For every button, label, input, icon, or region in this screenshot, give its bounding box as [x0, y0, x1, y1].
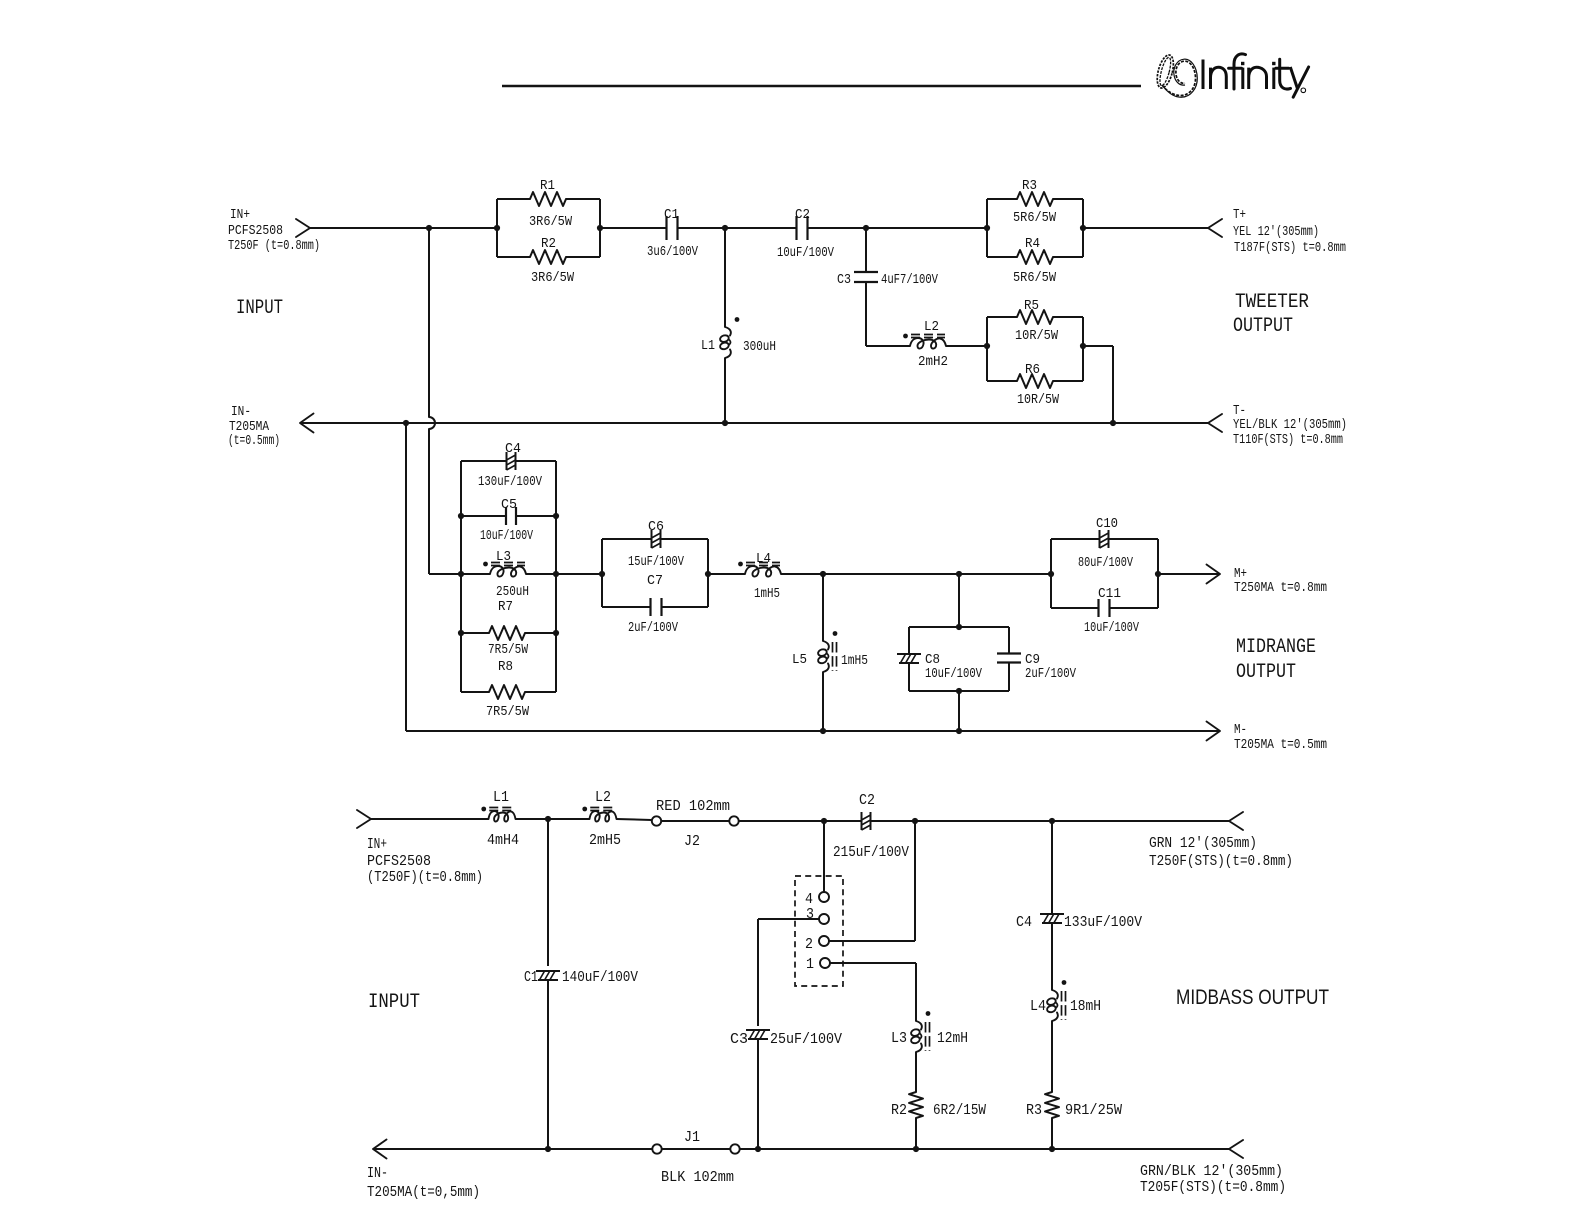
wire L2 to R5R6: [946, 345, 987, 347]
wire IN+ to R1R2: [310, 227, 497, 229]
svg-text:140uF/100V: 140uF/100V: [562, 969, 638, 986]
capacitor C7: [602, 606, 651, 608]
wire L1 to L2: [516, 818, 590, 820]
wire C1 to L1 node: [678, 227, 726, 229]
svg-text:T+: T+: [1233, 207, 1246, 223]
svg-text:80uF/100V: 80uF/100V: [1078, 555, 1133, 571]
svg-text:L4: L4: [756, 551, 771, 567]
wire to T+: [1083, 227, 1208, 229]
node L5 tap: [820, 571, 826, 577]
header pin 2: [819, 936, 829, 946]
wire C8C9 to M- rail: [958, 691, 960, 731]
header pin 3: [819, 914, 829, 924]
terminal T-: [1208, 414, 1222, 432]
svg-text:T187F(STS) t=0.8mm: T187F(STS) t=0.8mm: [1234, 240, 1346, 256]
inductor L3: [461, 573, 490, 575]
capacitor C2 midbass: [861, 812, 863, 830]
node C10C11 left: [1048, 571, 1054, 577]
svg-text:2: 2: [805, 936, 813, 953]
svg-text:R6: R6: [1025, 362, 1040, 378]
svg-text:3R6/5W: 3R6/5W: [529, 214, 572, 230]
svg-text:133uF/100V: 133uF/100V: [1064, 914, 1142, 931]
svg-text:2uF/100V: 2uF/100V: [628, 620, 678, 636]
inductor L5: [823, 641, 829, 650]
node C1 bottom: [545, 1146, 551, 1152]
node R1R2 left: [494, 225, 500, 231]
svg-text:R2: R2: [891, 1102, 907, 1119]
wire box1 to box2: [556, 573, 602, 575]
resistor R7: [461, 632, 489, 634]
svg-text:J2: J2: [684, 833, 700, 850]
svg-text:250uH: 250uH: [496, 584, 529, 600]
svg-text:2mH2: 2mH2: [918, 354, 948, 370]
svg-text:IN-: IN-: [367, 1165, 388, 1182]
svg-text:R4: R4: [1025, 236, 1040, 252]
svg-text:C4: C4: [1016, 914, 1032, 931]
capacitor C11: [1051, 607, 1099, 609]
svg-text:T205MA(t=0,5mm): T205MA(t=0,5mm): [367, 1184, 480, 1201]
svg-text:GRN 12'(305mm): GRN 12'(305mm): [1149, 835, 1257, 852]
capacitor C9: [1008, 627, 1010, 654]
resistor box R1/R2: [496, 199, 498, 257]
node C4 tap: [1049, 818, 1055, 824]
node R3R4 right: [1080, 225, 1086, 231]
svg-text:T250F (t=0.8mm): T250F (t=0.8mm): [228, 238, 320, 254]
connector J2 pin: [652, 816, 661, 825]
wire IN+ to L1: [371, 818, 489, 820]
svg-text:R8: R8: [498, 659, 513, 675]
node pin2 riser: [912, 818, 918, 824]
capacitor C3 branch: [865, 228, 867, 272]
svg-text:M-: M-: [1234, 722, 1247, 738]
wire R5R6 to T- drop: [1083, 345, 1113, 347]
Infinity logo swirl: [1154, 53, 1197, 97]
svg-text:10uF/100V: 10uF/100V: [777, 245, 834, 261]
svg-text:IN+: IN+: [230, 207, 250, 223]
parallel box C6/C7: [601, 539, 603, 607]
svg-text:3R6/5W: 3R6/5W: [531, 270, 574, 286]
svg-text:INPUT: INPUT: [368, 991, 420, 1014]
wire R3 to rail: [1051, 1118, 1053, 1149]
svg-text:4mH4: 4mH4: [487, 832, 519, 849]
svg-text:R7: R7: [498, 599, 513, 615]
wire J1 BLK: [662, 1148, 731, 1150]
svg-text:T205F(STS)(t=0.8mm): T205F(STS)(t=0.8mm): [1140, 1179, 1286, 1196]
svg-text:(t=0.5mm): (t=0.5mm): [228, 433, 280, 449]
terminal M- arrow: [1207, 722, 1221, 741]
wire pin2 riser: [829, 940, 915, 942]
svg-text:10uF/100V: 10uF/100V: [480, 528, 533, 544]
wire IN- to M- rail: [405, 423, 407, 731]
capacitor C8: [908, 627, 910, 654]
svg-text:C1: C1: [664, 207, 679, 223]
Infinity wordmark: [1203, 54, 1309, 97]
wire box2 to L4: [708, 573, 745, 575]
node C10C11 right: [1155, 571, 1161, 577]
capacitor C1 midbass: [536, 970, 560, 972]
node M- C8C9: [956, 728, 962, 734]
svg-text:R3: R3: [1022, 178, 1037, 194]
wire bottom rail right: [740, 1148, 1230, 1150]
inductor L5 branch: [822, 574, 824, 641]
svg-text:YEL 12'(305mm): YEL 12'(305mm): [1233, 224, 1319, 240]
wire pin1 drop: [830, 962, 916, 964]
svg-text:5R6/5W: 5R6/5W: [1013, 210, 1056, 226]
svg-text:3u6/100V: 3u6/100V: [647, 244, 698, 260]
wire R1R2 to C1: [600, 227, 667, 229]
svg-text:L1: L1: [493, 789, 509, 806]
terminal IN- arrow: [300, 414, 314, 433]
svg-text:R1: R1: [540, 178, 555, 194]
svg-text:C5: C5: [501, 497, 517, 513]
node C8C9 tap: [956, 571, 962, 577]
svg-text:1mH5: 1mH5: [841, 653, 868, 669]
svg-text:1mH5: 1mH5: [754, 586, 780, 602]
parallel box C8/C9: [958, 574, 960, 627]
terminal IN+ midbass: [357, 810, 371, 828]
svg-text:BLK 102mm: BLK 102mm: [661, 1169, 734, 1186]
node C3 bottom: [755, 1146, 761, 1152]
svg-text:25uF/100V: 25uF/100V: [770, 1031, 842, 1048]
node box2 right: [705, 571, 711, 577]
svg-text:L1: L1: [701, 338, 715, 354]
header pin 4: [819, 892, 829, 902]
inductor L4 midbass: [1052, 990, 1058, 999]
wire L4 to R3: [1051, 1021, 1053, 1092]
wire to C2: [725, 227, 797, 229]
terminal GRN: [1229, 812, 1243, 830]
wire IN- rail: [300, 422, 1208, 424]
header rule: [502, 85, 1141, 88]
capacitor C4 midbass branch: [1051, 821, 1053, 914]
svg-text:INPUT: INPUT: [236, 297, 283, 320]
svg-text:2mH5: 2mH5: [589, 832, 621, 849]
resistor R1: [530, 192, 566, 206]
wire C3 to rail: [757, 1039, 759, 1149]
svg-text:10uF/100V: 10uF/100V: [1084, 620, 1139, 636]
resistor R2: [530, 250, 566, 264]
svg-text:15uF/100V: 15uF/100V: [628, 554, 684, 570]
svg-text:C2: C2: [795, 207, 810, 223]
node R1R2 right: [597, 225, 603, 231]
resistor R6: [1017, 374, 1053, 388]
svg-text:L2: L2: [595, 789, 611, 806]
resistor R8: [461, 691, 489, 693]
connector J1 pin: [652, 1144, 661, 1153]
svg-text:2uF/100V: 2uF/100V: [1025, 666, 1076, 682]
svg-text:18mH: 18mH: [1070, 998, 1101, 1015]
svg-text:C3: C3: [837, 272, 851, 288]
svg-text:7R5/5W: 7R5/5W: [486, 704, 529, 720]
node C8C9 bottom: [956, 688, 962, 694]
capacitor C5: [461, 515, 506, 517]
parallel box C10/C11: [1050, 539, 1052, 608]
terminal M+ arrow: [1207, 565, 1221, 584]
capacitor C3: [854, 271, 878, 273]
node R5R6 right: [1080, 343, 1086, 349]
node box2 left: [599, 571, 605, 577]
wire C2 to C3 node: [808, 227, 867, 229]
capacitor C4: [461, 460, 507, 462]
terminal IN+ (tweeter/mid input): [296, 219, 310, 237]
svg-text:J1: J1: [684, 1129, 700, 1146]
svg-text:4uF7/100V: 4uF7/100V: [881, 272, 938, 288]
inductor L4: [745, 566, 781, 577]
header connector dashed box: [795, 876, 843, 986]
svg-text:10uF/100V: 10uF/100V: [925, 666, 982, 682]
wire pin3 to C3: [758, 918, 819, 920]
svg-text:3: 3: [806, 906, 814, 923]
node L1 tap: [722, 225, 728, 231]
nodes parallel box left: [458, 513, 464, 519]
header pin 1: [820, 958, 830, 968]
svg-text:C4: C4: [505, 441, 521, 457]
svg-text:300uH: 300uH: [743, 339, 776, 355]
terminal GRN/BLK: [1229, 1140, 1243, 1158]
connector J1 pin 2: [730, 1144, 739, 1153]
wire pin4 drop: [823, 821, 825, 892]
svg-text:C1: C1: [524, 969, 538, 986]
resistor R2 midbass: [909, 1092, 923, 1118]
svg-text:OUTPUT: OUTPUT: [1236, 661, 1296, 684]
svg-text:IN+: IN+: [367, 836, 387, 853]
node C3 tap: [863, 225, 869, 231]
resistor R3: [1017, 192, 1053, 206]
svg-text:C11: C11: [1098, 586, 1121, 602]
svg-text:MIDBASS OUTPUT: MIDBASS OUTPUT: [1176, 986, 1329, 1009]
node C1 tap: [545, 816, 551, 822]
node R3 bottom: [1049, 1146, 1055, 1152]
node C8C9 top: [956, 624, 962, 630]
svg-text:T205MA t=0.5mm: T205MA t=0.5mm: [1234, 737, 1327, 753]
terminal T+: [1208, 219, 1222, 237]
svg-text:C6: C6: [648, 519, 664, 535]
wire input drop to midrange feed (with hop): [428, 228, 430, 417]
capacitor C2: [795, 216, 797, 240]
svg-text:RED 102mm: RED 102mm: [656, 798, 730, 815]
svg-text:MIDRANGE: MIDRANGE: [1236, 636, 1316, 659]
wire J2 RED: [661, 820, 730, 822]
node IN- drop: [403, 420, 409, 426]
svg-text:YEL/BLK 12'(305mm): YEL/BLK 12'(305mm): [1233, 417, 1347, 433]
svg-text:C3: C3: [730, 1031, 748, 1048]
node input junction: [426, 225, 432, 231]
svg-text:7R5/5W: 7R5/5W: [488, 642, 528, 658]
wire bottom rail left: [373, 1148, 652, 1150]
inductor L3 midbass: [916, 1021, 922, 1030]
connector J2 pin 2: [729, 816, 738, 825]
wire to M+: [1158, 573, 1220, 575]
svg-text:C7: C7: [647, 573, 663, 589]
wire to R3R4: [866, 227, 987, 229]
nodes parallel box right: [553, 513, 559, 519]
inductor L1 branch: [724, 228, 726, 327]
svg-text:9R1/25W: 9R1/25W: [1065, 1102, 1122, 1119]
capacitor C1: [665, 216, 667, 240]
svg-text:GRN/BLK 12'(305mm): GRN/BLK 12'(305mm): [1140, 1163, 1283, 1180]
node R3R4 left: [984, 225, 990, 231]
node header pin4 tap: [821, 818, 827, 824]
wire C2 to GRN: [871, 820, 1230, 822]
svg-text:L5: L5: [792, 652, 807, 668]
svg-text:10R/5W: 10R/5W: [1015, 328, 1058, 344]
capacitor C1 midbass branch: [547, 819, 549, 966]
svg-text:10R/5W: 10R/5W: [1017, 392, 1059, 408]
svg-text:(T250F)(t=0.8mm): (T250F)(t=0.8mm): [367, 869, 483, 886]
terminal IN- midbass arrow: [373, 1140, 387, 1159]
svg-text:L4: L4: [1030, 998, 1046, 1015]
svg-text:OUTPUT: OUTPUT: [1233, 315, 1293, 338]
resistor box R5/R6: [986, 317, 988, 381]
svg-text:T110F(STS) t=0.8mm: T110F(STS) t=0.8mm: [1233, 432, 1343, 448]
svg-text:PCFS2508: PCFS2508: [228, 223, 283, 239]
resistor box R3/R4: [986, 199, 988, 257]
svg-text:215uF/100V: 215uF/100V: [833, 844, 909, 861]
resistor R3 midbass: [1045, 1092, 1059, 1118]
svg-text:R5: R5: [1024, 298, 1039, 314]
svg-text:L3: L3: [891, 1030, 907, 1047]
node R2 bottom: [913, 1146, 919, 1152]
capacitor C6: [602, 538, 652, 540]
svg-text:T250F(STS)(t=0.8mm): T250F(STS)(t=0.8mm): [1149, 853, 1293, 870]
node M- L5: [820, 728, 826, 734]
node T- drop: [1110, 420, 1116, 426]
svg-text:T250MA t=0.8mm: T250MA t=0.8mm: [1234, 580, 1327, 596]
capacitor C3 midbass: [746, 1029, 770, 1031]
svg-text:C2: C2: [859, 792, 875, 809]
inductor L2: [910, 338, 946, 349]
capacitor C4 midbass: [1040, 913, 1064, 915]
svg-text:5R6/5W: 5R6/5W: [1013, 270, 1056, 286]
wire L2 to J2: [617, 819, 652, 820]
capacitor C10: [1051, 538, 1100, 540]
inductor L1 midbass: [489, 811, 516, 822]
svg-text:PCFS2508: PCFS2508: [367, 853, 431, 870]
wire L4 to C10C11: [781, 573, 1051, 575]
svg-text:C10: C10: [1096, 516, 1118, 532]
svg-text:L3: L3: [496, 549, 511, 565]
svg-text:R2: R2: [541, 236, 556, 252]
svg-text:L2: L2: [924, 319, 939, 335]
parallel box C4/C5/L3/R7/R8: [460, 461, 462, 692]
svg-text:IN-: IN-: [231, 404, 251, 420]
svg-text:6R2/15W: 6R2/15W: [933, 1102, 986, 1119]
svg-text:R3: R3: [1026, 1102, 1042, 1119]
node R5R6 left: [984, 343, 990, 349]
wire R2 to rail: [915, 1118, 917, 1149]
wire J2 to C2: [739, 820, 862, 822]
wire L3 to R2: [915, 1052, 917, 1092]
inductor L1: [725, 327, 731, 336]
inductor L2 midbass: [590, 811, 617, 822]
resistor R4: [1017, 250, 1053, 264]
svg-text:130uF/100V: 130uF/100V: [478, 474, 542, 490]
resistor R5: [1017, 310, 1053, 324]
svg-text:12mH: 12mH: [937, 1030, 968, 1047]
svg-text:1: 1: [806, 956, 814, 973]
node L1 bottom: [722, 420, 728, 426]
svg-text:TWEETER: TWEETER: [1235, 291, 1309, 314]
